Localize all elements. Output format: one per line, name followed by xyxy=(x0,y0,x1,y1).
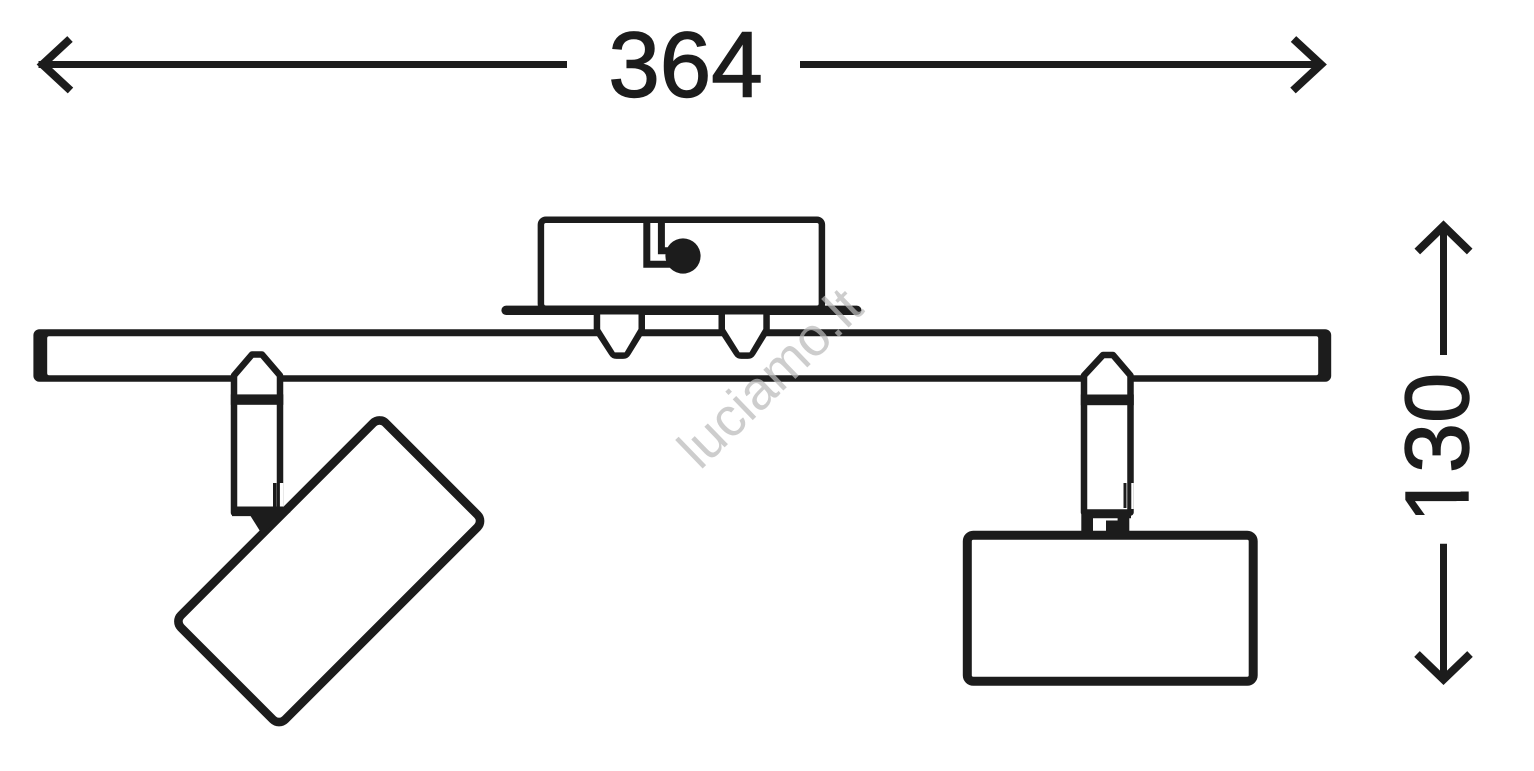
svg-text:364: 364 xyxy=(608,12,762,116)
right head xyxy=(967,535,1253,681)
right stem collar xyxy=(1081,395,1134,406)
right stem notch xyxy=(1124,483,1134,509)
clip left xyxy=(594,310,645,359)
cable channel inner xyxy=(661,220,677,251)
left stem bottom xyxy=(232,506,282,516)
cable channel outer xyxy=(647,220,673,264)
arrowhead up xyxy=(1417,226,1469,252)
left stem xyxy=(234,355,280,513)
dimension line down (130) xyxy=(1440,544,1447,678)
right neck xyxy=(1081,514,1129,532)
left stem collar xyxy=(231,394,283,404)
clip right xyxy=(719,310,770,359)
left head (tilted 45) xyxy=(175,417,484,726)
base plate xyxy=(501,306,861,315)
arrowhead down xyxy=(1417,654,1470,680)
dimension line up (130) xyxy=(1440,226,1447,355)
mounting bar xyxy=(33,329,1331,382)
left joint xyxy=(248,512,291,534)
right stem xyxy=(1084,355,1131,513)
svg-text:130: 130 xyxy=(1388,373,1488,523)
terminal dot xyxy=(665,238,700,273)
arrowhead left xyxy=(43,39,71,91)
left stem notch xyxy=(273,483,283,507)
canopy box U1 xyxy=(541,220,822,309)
arrowhead right xyxy=(1293,39,1321,91)
right stem bottom xyxy=(1084,510,1132,518)
dimension line right (364) xyxy=(800,61,1323,68)
dimension line left (364) xyxy=(39,61,568,68)
